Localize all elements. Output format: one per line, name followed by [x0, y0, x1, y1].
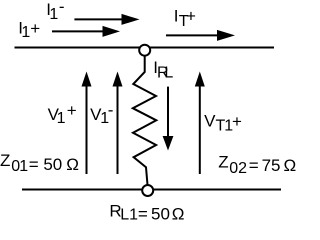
svg-text:Ω: Ω [66, 155, 79, 174]
svg-text:Z: Z [0, 151, 10, 170]
svg-text:+: + [232, 112, 242, 131]
svg-text:75: 75 [262, 156, 281, 175]
svg-text:-: - [108, 101, 114, 120]
svg-text:1: 1 [57, 110, 66, 127]
svg-text:=: = [249, 156, 259, 175]
svg-text:-: - [59, 0, 65, 16]
svg-text:L: L [164, 64, 173, 81]
svg-text:Z: Z [218, 153, 228, 172]
svg-text:+: + [186, 7, 196, 26]
svg-text:50: 50 [151, 204, 170, 223]
svg-text:1: 1 [19, 158, 28, 175]
svg-text:V: V [204, 112, 216, 131]
svg-text:= 50: = 50 [29, 155, 63, 174]
svg-text:1: 1 [49, 6, 58, 23]
svg-text:Ω: Ω [284, 156, 297, 175]
svg-text:+: + [67, 101, 77, 120]
svg-text:1: 1 [21, 24, 30, 41]
svg-text:+: + [30, 19, 40, 38]
svg-text:02: 02 [229, 160, 247, 177]
svg-text:=: = [138, 204, 148, 223]
svg-text:L1: L1 [120, 206, 138, 223]
svg-text:Ω: Ω [172, 204, 185, 223]
